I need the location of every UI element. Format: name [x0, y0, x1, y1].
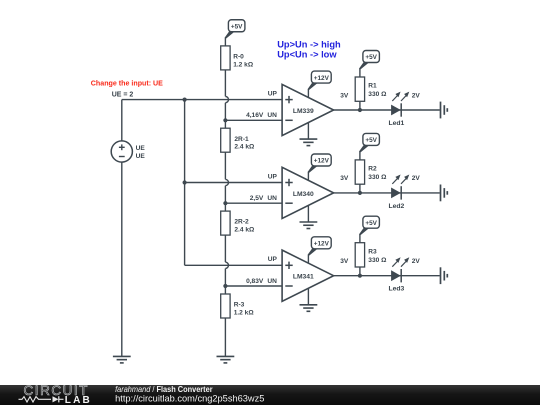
svg-text:R1: R1 — [368, 83, 377, 90]
svg-text:+12V: +12V — [314, 75, 330, 82]
svg-text:Change the input: UE: Change the input: UE — [91, 79, 163, 87]
svg-text:+5V: +5V — [365, 220, 377, 227]
svg-text:+5V: +5V — [365, 54, 377, 61]
svg-text:1.2 kΩ: 1.2 kΩ — [234, 310, 255, 317]
svg-text:+12V: +12V — [314, 241, 330, 248]
svg-text:R-3: R-3 — [234, 302, 245, 309]
svg-text:+5V: +5V — [365, 137, 377, 144]
svg-text:UE: UE — [136, 153, 146, 160]
svg-text:3V: 3V — [340, 258, 349, 265]
svg-text:UE: UE — [136, 145, 146, 152]
svg-text:Up>Un -> high: Up>Un -> high — [277, 40, 341, 50]
svg-text:Led3: Led3 — [388, 286, 404, 293]
svg-text:R2: R2 — [368, 166, 377, 173]
svg-text:+12V: +12V — [314, 158, 330, 165]
svg-text:http://circuitlab.com/cng2p5sh: http://circuitlab.com/cng2p5sh63wz5 — [115, 392, 264, 403]
svg-text:LM341: LM341 — [293, 274, 314, 281]
svg-text:+5V: +5V — [231, 23, 243, 30]
svg-text:2R-1: 2R-1 — [234, 136, 249, 143]
svg-text:LM340: LM340 — [293, 191, 314, 198]
svg-text:LM339: LM339 — [293, 108, 314, 115]
svg-text:330 Ω: 330 Ω — [368, 91, 387, 98]
svg-text:4,16V: 4,16V — [246, 112, 264, 119]
svg-text:UN: UN — [267, 112, 277, 119]
svg-text:2.4 kΩ: 2.4 kΩ — [234, 144, 255, 151]
svg-text:UP: UP — [268, 90, 278, 97]
svg-text:UE = 2: UE = 2 — [112, 92, 134, 99]
svg-text:UP: UP — [268, 256, 278, 263]
svg-text:2R-2: 2R-2 — [234, 219, 249, 226]
svg-text:2V: 2V — [412, 175, 421, 182]
svg-text:2V: 2V — [412, 258, 421, 265]
svg-text:3V: 3V — [340, 175, 349, 182]
svg-text:2.4 kΩ: 2.4 kΩ — [234, 227, 255, 234]
svg-text:R3: R3 — [368, 248, 377, 255]
svg-text:R-0: R-0 — [233, 54, 244, 61]
svg-text:UP: UP — [268, 173, 278, 180]
svg-text:2V: 2V — [412, 92, 421, 99]
svg-text:Led1: Led1 — [388, 120, 404, 127]
svg-text:1.2 kΩ: 1.2 kΩ — [233, 61, 254, 68]
svg-text:UN: UN — [267, 278, 277, 285]
svg-text:2,5V: 2,5V — [250, 195, 264, 202]
svg-text:UN: UN — [267, 195, 277, 202]
svg-text:Up<Un -> low: Up<Un -> low — [277, 49, 337, 59]
svg-text:LAB: LAB — [65, 395, 92, 405]
svg-text:3V: 3V — [340, 92, 349, 99]
svg-text:Led2: Led2 — [388, 203, 404, 210]
svg-text:0,83V: 0,83V — [246, 278, 264, 285]
svg-text:330 Ω: 330 Ω — [368, 174, 387, 181]
svg-text:330 Ω: 330 Ω — [368, 257, 387, 264]
